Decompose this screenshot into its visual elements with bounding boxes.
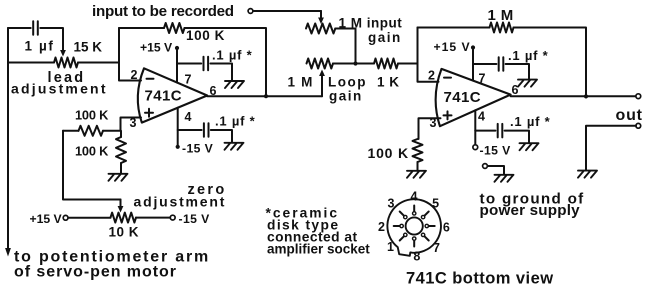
input terminal [248, 9, 253, 14]
U1 minus sign [147, 78, 154, 80]
svg-text:100 K: 100 K [186, 28, 225, 43]
wire U1 pin4 [177, 108, 179, 147]
potentiometer R-input-gain 1M [306, 24, 335, 34]
wire R9 bottom lead [417, 162, 419, 170]
svg-text:2: 2 [428, 69, 435, 83]
wire U2 pin3 [419, 118, 441, 139]
wire U1 pin3 [121, 118, 142, 131]
wire U1 pin7 [176, 48, 178, 83]
svg-text:7: 7 [479, 72, 486, 86]
wire U2 pin7 [472, 48, 474, 81]
svg-text:-15 V: -15 V [182, 142, 214, 156]
wire U2 top cap left [473, 63, 496, 65]
wire feedback2 top right [514, 28, 587, 97]
svg-text:+15 V: +15 V [140, 41, 173, 55]
svg-text:4: 4 [411, 190, 418, 204]
ground U2 top cap [518, 80, 537, 87]
svg-text:1 M: 1 M [488, 7, 514, 24]
wire R4 bottom lead [120, 163, 122, 173]
svg-text:2: 2 [378, 220, 385, 234]
svg-text:1 M: 1 M [288, 75, 314, 90]
wire 1K to U2 node [398, 63, 418, 65]
input gain wiper arrow [320, 11, 322, 20]
op-amp U2 741C [436, 69, 511, 126]
svg-text:of servo-pen motor: of servo-pen motor [14, 264, 177, 281]
resistor R3 100K horizontal [79, 126, 104, 136]
svg-text:4: 4 [185, 110, 192, 124]
resistor R7 1K [374, 59, 398, 69]
svg-text:-15 V: -15 V [179, 212, 211, 226]
lead-adjust wiper arrow [62, 46, 64, 53]
svg-text:1: 1 [387, 240, 394, 254]
zero-adj wiper arrow [120, 200, 122, 209]
wire U1 top cap right [210, 64, 232, 81]
IC socket outline (741C bottom view) [387, 199, 441, 256]
capacitor C2 .1uf U1 top [204, 57, 209, 71]
resistor R4 100K vertical [116, 137, 126, 163]
ground U1 bottom cap [225, 143, 244, 150]
svg-text:gain: gain [368, 30, 402, 45]
svg-text:.1 µf *: .1 µf * [510, 114, 551, 129]
svg-text:.1 µf *: .1 µf * [212, 48, 253, 63]
svg-text:adjustment: adjustment [11, 81, 108, 97]
wire power ground [487, 166, 504, 174]
wire cap to wiper [40, 28, 63, 46]
wire U2 bot cap left [475, 130, 495, 132]
junction feedback2-output [584, 94, 588, 98]
svg-text:.1 µf *: .1 µf * [215, 114, 256, 129]
svg-text:Loop: Loop [328, 75, 367, 90]
potentiometer R6 1M loop gain [307, 59, 334, 69]
svg-text:10 K: 10 K [109, 225, 140, 240]
socket pin 7 mark [425, 236, 429, 240]
svg-text:1 µf: 1 µf [25, 39, 55, 54]
svg-text:power supply: power supply [480, 202, 581, 219]
svg-text:amplifier socket: amplifier socket [267, 242, 370, 257]
wire feedback1 top right [185, 28, 267, 96]
resistor R8 1M feedback2 [490, 23, 514, 33]
resistor R9 100K U2 [413, 139, 423, 162]
svg-text:6: 6 [443, 221, 450, 235]
svg-text:3: 3 [388, 197, 395, 211]
ground U2 bottom cap [520, 143, 539, 150]
wire 10K right lead [136, 217, 170, 219]
svg-text:7: 7 [433, 241, 440, 255]
terminal out lower [636, 123, 641, 128]
wire U2 output [511, 95, 636, 97]
svg-text:+15 V: +15 V [30, 212, 63, 226]
wire feedback2 top left [418, 27, 490, 29]
svg-text:100 K: 100 K [75, 144, 109, 159]
wire cap top-left [8, 27, 31, 29]
wire U2 top cap right [506, 64, 529, 79]
terminal +15V zero-adj [63, 215, 68, 220]
wire R3 left lead [63, 130, 79, 132]
U2 plus sign [444, 111, 452, 119]
svg-text:5: 5 [432, 197, 439, 211]
wire U1 top cap left [177, 63, 201, 65]
terminal -15V U2 [473, 145, 478, 150]
svg-text:4: 4 [478, 110, 485, 124]
wire 10K left lead [68, 217, 111, 219]
wire U1 bot cap left [178, 129, 202, 131]
wire main input row left [8, 62, 54, 64]
junction input-gain/loop row [353, 61, 357, 65]
potentiometer R-lead 15K [54, 58, 78, 68]
svg-text:2: 2 [131, 68, 138, 82]
svg-text:-15 V: -15 V [480, 144, 512, 158]
svg-text:6: 6 [512, 83, 519, 97]
wire R4 top lead [120, 131, 122, 137]
socket pin 2 mark [394, 225, 400, 227]
socket center hole [406, 217, 423, 234]
op-amp U1 741C [138, 68, 207, 122]
wire input to input-gain wiper [253, 10, 321, 12]
resistor R-feedback1 100K [164, 23, 185, 33]
socket pin 8 mark [413, 241, 415, 247]
potentiometer R5 10K [111, 213, 137, 223]
svg-text:741C: 741C [444, 89, 481, 106]
wire loop-gain to 1K [333, 63, 374, 65]
wire R3 right lead [103, 130, 121, 132]
wire input-gain to node [335, 29, 355, 64]
capacitor C5 .1uf U2 bottom [498, 124, 503, 138]
wire left vertical bus [7, 28, 9, 250]
ground R9 [407, 171, 426, 178]
terminal out upper [636, 94, 641, 99]
svg-text:100 K: 100 K [75, 108, 109, 123]
wire feedback1 top left [119, 27, 164, 29]
svg-text:8: 8 [413, 250, 420, 264]
node +15V U2 [471, 45, 475, 49]
svg-text:741C: 741C [145, 88, 182, 105]
terminal power ground [483, 164, 488, 169]
node +15V U1 [175, 46, 179, 50]
node -15V U1 [176, 145, 180, 149]
svg-text:out: out [616, 107, 643, 124]
svg-text:741C bottom view: 741C bottom view [406, 270, 553, 286]
svg-text:.1 µf *: .1 µf * [508, 48, 549, 63]
ground power supply terminal [495, 175, 514, 182]
wire 100K to zero-adj [63, 131, 121, 200]
socket pin 3 mark [400, 212, 404, 216]
ground R4 [109, 174, 128, 181]
wire node pin2 vertical [119, 28, 141, 81]
wire U1 output [207, 95, 322, 97]
svg-text:+15 V: +15 V [434, 40, 471, 54]
U1 plus sign [145, 109, 153, 117]
svg-text:input to be recorded: input to be recorded [92, 3, 234, 20]
svg-text:15 K: 15 K [74, 40, 103, 55]
wire U1 bot cap right [211, 130, 232, 142]
arrow to potentiometer arm [5, 248, 11, 257]
ground U1 top cap [225, 81, 244, 88]
svg-text:gain: gain [329, 89, 363, 104]
svg-text:100 K: 100 K [368, 145, 409, 161]
wire U2 pin2 node vertical [418, 28, 439, 82]
svg-text:1 K: 1 K [377, 75, 400, 90]
svg-text:adjustment: adjustment [134, 194, 227, 210]
ground output return [578, 171, 597, 178]
wire main input row right [78, 62, 119, 64]
socket pin 1 mark [400, 236, 404, 240]
wire U2 pin4 [474, 110, 476, 144]
capacitor C4 .1uf U2 top [499, 57, 504, 71]
socket pin 4 mark [413, 206, 415, 212]
socket pin 5 mark [425, 212, 429, 216]
capacitor C1 1uf [33, 21, 38, 35]
wire U2 bot cap right [505, 131, 529, 143]
loop-gain wiper arrow [321, 74, 323, 97]
wire out lower to ground [586, 126, 636, 170]
svg-text:7: 7 [185, 73, 192, 87]
junction feedback1-output [264, 94, 268, 98]
U2 minus sign [444, 77, 451, 79]
socket pin 6 mark [429, 225, 435, 227]
capacitor C3 .1uf U1 bottom [204, 123, 209, 137]
terminal -15V zero-adj [170, 215, 175, 220]
